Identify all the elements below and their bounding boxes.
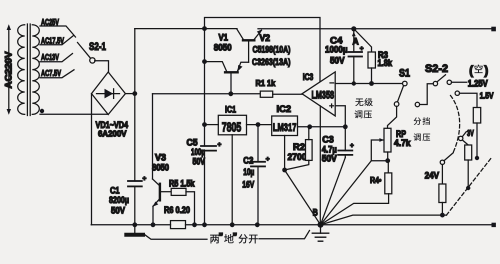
potentiometer RP wiper rheostat strap [371,138,387,161]
svg-text:8200µ: 8200µ [109,195,129,205]
wire 7805 ground pin [231,135,233,225]
wire op-amp supply loop y=17.5 [205,18,321,82]
svg-text:1.8k: 1.8k [378,58,393,68]
transformer T primary voltage arrow [7,24,11,115]
node 7805 input dot [202,122,207,127]
wire Ra bottom lead [476,123,478,158]
svg-text:8050: 8050 [214,43,232,53]
svg-text:C3: C3 [322,134,334,144]
capacitor C3 plates [338,151,352,155]
resistor R3 bottom lead [371,68,373,84]
svg-text:2700: 2700 [288,152,307,162]
node Ra bottom dot [475,156,479,160]
svg-text:R4•: R4• [370,175,382,185]
resistor R1 box [260,91,272,97]
resistor R4 bottom lead with elbow to node B [321,194,389,225]
wire R1 to op-amp output [273,93,302,95]
svg-text:+: + [350,143,354,150]
node bus end square [492,223,496,227]
wire RP bottom lead [387,152,389,161]
wire raw DC riser x=134.8 [134,29,136,181]
wire 7805 input [205,124,219,126]
transistor V3 base bar [159,184,161,201]
tap AC25V wire [40,26,76,37]
bridge rectifier diode symbol [97,89,120,99]
wire S1 to RP [388,106,397,128]
wire bridge plus to node [125,93,134,95]
transistor V1 collector lead [205,62,227,72]
svg-text:IC3: IC3 [303,71,314,82]
wire C5 bottom lead [204,151,206,225]
node Rc bottom dot [440,213,445,218]
capacitor C4 bottom lead [353,57,355,84]
svg-text:V3: V3 [155,152,166,162]
node A dot [351,26,356,31]
contact 24V circle and tick [440,153,453,165]
resistor R4 top lead [387,161,389,173]
svg-text:+: + [360,45,364,52]
tap common junction dot [40,109,44,113]
ground symbol at node B [312,225,328,241]
svg-text:50V: 50V [193,157,206,167]
wire fan B to RP wiper corner [321,161,372,225]
node B dot [318,222,324,228]
svg-text:100µ: 100µ [191,147,205,157]
transistor V1 base lead down [230,73,232,94]
wire LM317 adj pin [284,136,286,171]
svg-text:V1: V1 [219,33,229,43]
wire fan B to C3 bottom [321,158,346,225]
switch S2-2 blade [437,75,445,82]
annotation two grounds separated leader right [259,231,310,239]
wire fan B to LM317 adj node [285,170,321,225]
transistor V2 collector [237,29,243,39]
node C4 bottom dot [352,81,356,85]
node bridge plus dot [132,91,137,96]
tap common wire to bridge [40,113,108,115]
wire op-amp plus input line [335,106,345,127]
svg-text:50V: 50V [330,56,345,66]
bridge rectifier VD1-VD4 diamond [92,72,126,115]
capacitor C2 plates [251,162,265,167]
bus junction dots [132,222,137,227]
wire Rb bottom lead [467,160,469,188]
svg-text:4.7k: 4.7k [394,138,411,148]
wire Rc bottom lead [441,203,443,216]
node V1 emitter dot [202,59,207,64]
svg-text:3V: 3V [467,129,474,138]
svg-text:C2: C2 [243,155,253,165]
capacitor C3 bottom lead [344,155,346,158]
svg-text:S2-2: S2-2 [425,63,448,75]
svg-text:R5 1.5k: R5 1.5k [169,178,195,188]
wire top rail raw DC y=28.6 [135,28,237,30]
ground symbol left (chassis bar) [126,225,143,235]
ground bus wire [91,224,491,226]
capacitor C2 top lead [257,125,259,162]
svg-text:+: + [218,142,222,149]
switch S2-2 lower contact circle [415,102,419,106]
svg-text:50V: 50V [111,206,125,216]
svg-text:1000µ: 1000µ [325,44,348,54]
op-amp IC3 triangle [302,72,335,116]
svg-text:AC25V: AC25V [41,17,59,27]
transistor V3 collector diagonal [153,179,160,186]
svg-text:AC17.5V: AC17.5V [41,36,64,46]
svg-text:+: + [143,176,147,183]
wire R2 top lead [308,127,310,140]
svg-text:IC2: IC2 [277,104,292,115]
wire base drive line y=93.8 [153,93,261,95]
wire op-amp V- to node B [319,106,321,225]
svg-text:10µ: 10µ [243,167,254,177]
transistor V2 emitter with arrow [254,29,262,39]
resistor divider Rc box [439,184,446,203]
annotation two grounds separated leader left [144,234,207,239]
svg-text:AC220V: AC220V [4,51,15,89]
transformer T primary winding [18,25,25,115]
op-amp plus marker [330,104,334,108]
label empty position [469,65,488,78]
svg-text:S2-1: S2-1 [89,41,106,53]
wire 7805 feed riser x=204.5 [204,29,206,146]
switch S1 blade [397,86,403,103]
capacitor C5 plates [201,146,216,151]
wire op-amp minus input line [335,83,402,85]
svg-text:1.5V: 1.5V [480,90,494,100]
rotary switch dashed arc [451,96,460,155]
capacitor C4 plates [349,52,363,57]
resistor divider Rc top lead [441,165,443,185]
IC2 LM317 box [272,116,298,136]
svg-text:C5: C5 [187,137,198,147]
tap AC7.5V wire [40,70,74,78]
op-amp minus marker [330,82,334,84]
svg-text:IC1: IC1 [225,104,236,115]
node V1 base dot [228,91,233,96]
svg-text:16V: 16V [242,180,254,190]
node Rb bottom dot [466,186,470,190]
contact 1.5V circle and wire [455,91,477,108]
annotation stepless label (drawn as paths) [355,98,372,106]
wire V3 collector riser [152,94,154,179]
transistor V2 base bar [243,39,254,41]
node raw rail x=204.5 dot [202,26,207,31]
contact 1.25V circle and wire [447,80,466,84]
annotation two grounds separated text (drawn as paths) [210,234,258,244]
transistor V3 base lead [161,191,171,193]
wire output rail y=28.8 [258,28,494,30]
wire R5 right to bus [186,192,195,225]
wire bridge minus to ground bus [91,94,93,225]
resistor R5 box [171,188,186,195]
node output rail end square [491,27,496,32]
switch S2-1 contact circle [90,58,95,63]
svg-text:V2: V2 [260,33,271,43]
resistor R3 slant lead from node A [354,29,372,52]
node RP bottom dot [385,158,390,163]
node A arrow and label [352,32,359,47]
node C2 tap dot [256,122,261,127]
switch S1 top contact [403,81,408,86]
resistor divider Ra box [473,108,480,124]
svg-text:1.25V: 1.25V [468,79,488,89]
svg-text:LM317: LM317 [273,122,297,134]
capacitor C3 top lead [344,127,346,151]
svg-text:”: ” [219,232,224,242]
svg-text:R1 1k: R1 1k [256,78,276,88]
capacitor C4 top lead [353,29,355,52]
svg-text:6A200V: 6A200V [98,128,127,138]
transistor V1 emitter with arrow [237,62,248,71]
resistor R2 box [306,140,313,161]
tap AC17.5V wire [40,36,74,45]
svg-text:8050: 8050 [152,162,169,172]
svg-text:C5198(10A): C5198(10A) [253,44,291,54]
svg-text:”: ” [233,232,238,242]
contact 3V circle and ticks [459,132,469,145]
potentiometer RP box [384,128,391,152]
svg-text:C3263(13A): C3263(13A) [252,57,291,67]
switch S2-1 wire to bridge [95,61,109,72]
resistor divider Rb box [465,145,472,160]
svg-text:+: + [266,156,270,163]
wire S2-2 common elbow [420,84,434,105]
transformer T core [26,24,28,116]
svg-text:S1: S1 [399,68,410,80]
IC1 7805 box [218,115,246,135]
tap AC13V wire [40,54,73,62]
transistor V2 base lead [248,42,250,63]
transistor V1 base bar [225,71,238,73]
node R2 top dot [307,124,312,129]
wire 7805 output to LM317 [247,124,272,126]
wire LM317 output rail [298,126,346,128]
switch S2-2 common contact [433,81,437,85]
svg-text:50V: 50V [322,153,337,163]
transistor V3 emitter with arrow [153,199,160,225]
resistor R3 box [368,52,375,68]
svg-text:R2: R2 [293,142,305,152]
node R3 bottom dot [369,81,374,86]
transformer T secondary winding [32,25,39,115]
dashed divider continuation [447,157,493,215]
svg-text:24V: 24V [425,169,440,180]
resistor R4 box [385,173,392,194]
svg-text:(: ( [469,66,473,78]
switch S1 lower contact [394,102,399,107]
svg-text:7805: 7805 [222,119,242,134]
svg-text:AC13V: AC13V [41,52,59,62]
annotation stepped label (drawn as paths) [414,117,430,125]
wire C1 bottom lead [134,186,136,224]
svg-text:C1: C1 [110,186,120,196]
node adj junction dot [282,168,287,173]
capacitor C2 bottom lead [257,166,259,224]
svg-text:AC7.5V: AC7.5V [41,68,61,78]
resistor R6 box in bus [171,221,186,229]
svg-text:LM358: LM358 [312,90,335,102]
switch S2-1 blade [78,43,91,59]
capacitor C1 plates [128,181,142,186]
svg-text:R6 0.20: R6 0.20 [164,205,190,215]
wire fan B to divider bottom [321,215,447,225]
wire R2 bottom to adj node [285,160,309,170]
node op-amp plus input dot [343,124,348,129]
svg-text:): ) [484,66,488,78]
